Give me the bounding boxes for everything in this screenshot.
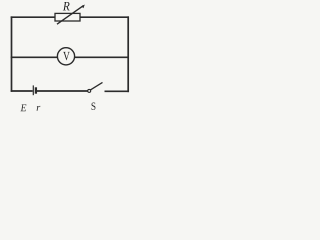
wire middle-right segment (voltmeter branch) xyxy=(75,56,129,58)
label S xyxy=(92,102,96,110)
switch lever xyxy=(90,82,102,90)
switch pivot circle xyxy=(88,89,91,92)
resistor R (rheostat box) xyxy=(55,2,85,24)
wire bottom-left segment xyxy=(11,90,33,92)
switch S xyxy=(88,82,103,110)
label V xyxy=(63,52,70,60)
label R xyxy=(63,2,70,10)
wire bottom-right segment xyxy=(105,90,130,92)
wire left vertical xyxy=(11,16,13,91)
battery E r xyxy=(20,85,40,111)
label E xyxy=(20,104,26,111)
wire top-left segment xyxy=(11,16,55,18)
background xyxy=(0,0,141,118)
wire bottom-middle segment xyxy=(37,90,88,92)
wire middle-left segment (voltmeter branch) xyxy=(11,56,58,58)
label r xyxy=(37,106,41,111)
voltmeter U1 xyxy=(57,48,74,65)
wire top-right segment xyxy=(80,16,129,18)
wire right vertical xyxy=(127,16,129,92)
battery long plate xyxy=(32,85,34,95)
rheostat arrow xyxy=(57,6,84,25)
battery short plate xyxy=(35,87,37,93)
